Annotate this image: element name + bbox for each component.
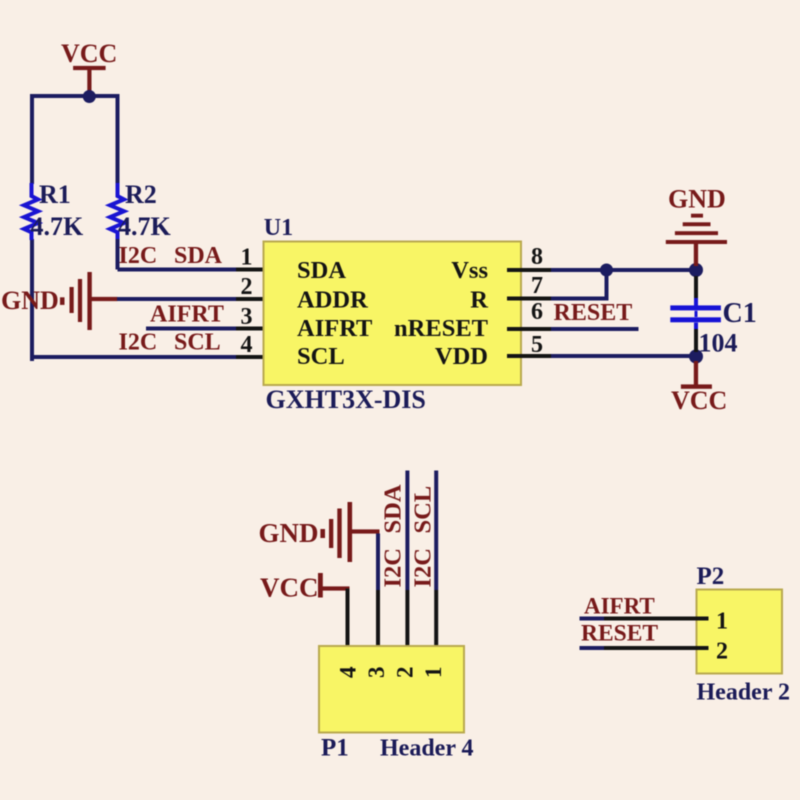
svg-text:4.7K: 4.7K (118, 212, 172, 241)
svg-text:104: 104 (699, 329, 738, 358)
svg-text:P1: P1 (321, 735, 349, 762)
svg-text:Vss: Vss (451, 257, 488, 284)
svg-text:nRESET: nRESET (394, 315, 488, 342)
svg-text:4: 4 (241, 332, 253, 358)
svg-text:VDD: VDD (435, 343, 488, 370)
svg-text:VCC: VCC (671, 386, 727, 415)
svg-text:1: 1 (421, 667, 446, 679)
svg-text:U1: U1 (264, 215, 293, 241)
svg-text:4: 4 (335, 666, 360, 678)
svg-text:1: 1 (716, 609, 728, 635)
svg-text:GXHT3X-DIS: GXHT3X-DIS (266, 385, 426, 414)
svg-text:2: 2 (716, 639, 728, 665)
svg-text:P2: P2 (697, 563, 725, 590)
svg-text:C1: C1 (723, 298, 757, 329)
svg-text:GND: GND (1, 286, 59, 315)
svg-text:R: R (470, 287, 488, 314)
svg-text:VCC: VCC (260, 573, 319, 603)
svg-text:R1: R1 (39, 180, 71, 209)
svg-text:6: 6 (531, 299, 543, 325)
svg-text:5: 5 (531, 332, 543, 358)
svg-text:3: 3 (241, 304, 253, 330)
svg-text:8: 8 (531, 244, 543, 270)
svg-text:2: 2 (241, 274, 253, 300)
svg-text:3: 3 (364, 667, 389, 679)
svg-text:RESET: RESET (581, 621, 658, 647)
svg-text:R2: R2 (125, 180, 157, 209)
svg-text:2: 2 (392, 667, 417, 679)
svg-text:7: 7 (531, 273, 543, 299)
svg-text:GND: GND (668, 185, 726, 214)
svg-text:SDA: SDA (297, 257, 346, 284)
svg-text:SCL: SCL (297, 343, 345, 370)
svg-text:4.7K: 4.7K (31, 212, 85, 241)
svg-text:VCC: VCC (61, 39, 117, 68)
svg-text:AIFRT: AIFRT (584, 594, 655, 619)
svg-text:AIFRT: AIFRT (297, 315, 372, 342)
svg-text:Header 2: Header 2 (697, 680, 791, 706)
svg-text:AIFRT: AIFRT (150, 302, 224, 328)
svg-text:ADDR: ADDR (297, 287, 368, 314)
svg-text:RESET: RESET (554, 300, 633, 326)
svg-text:GND: GND (259, 518, 319, 548)
svg-text:1: 1 (241, 245, 253, 271)
svg-text:Header 4: Header 4 (380, 736, 474, 762)
